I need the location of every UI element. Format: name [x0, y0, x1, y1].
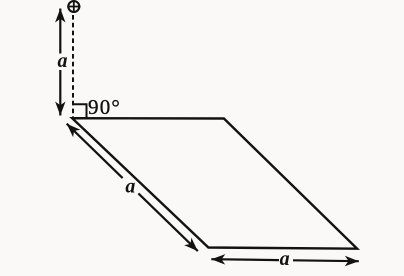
point charge symbol (circle-plus)	[67, 1, 80, 13]
svg-text:a: a	[280, 248, 290, 270]
horizontal double-headed arrow, right segment	[293, 259, 359, 262]
svg-text:a: a	[58, 50, 68, 72]
diagonal double-headed arrow along left edge, upper segment	[67, 124, 123, 178]
diagonal double-headed arrow, lower segment	[138, 193, 197, 251]
svg-text:a: a	[125, 176, 135, 198]
dashed line from charge to corner	[72, 15, 74, 118]
vertical double-headed arrow, lower segment	[59, 70, 61, 116]
horizontal double-headed arrow below bottom edge, left segment	[211, 258, 279, 261]
parallelogram (square plate in perspective)	[72, 118, 357, 249]
right-angle (90 degree) marker square	[73, 104, 87, 117]
vertical double-headed arrow (distance a), upper segment	[59, 9, 61, 54]
svg-text:90°: 90°	[88, 95, 121, 119]
